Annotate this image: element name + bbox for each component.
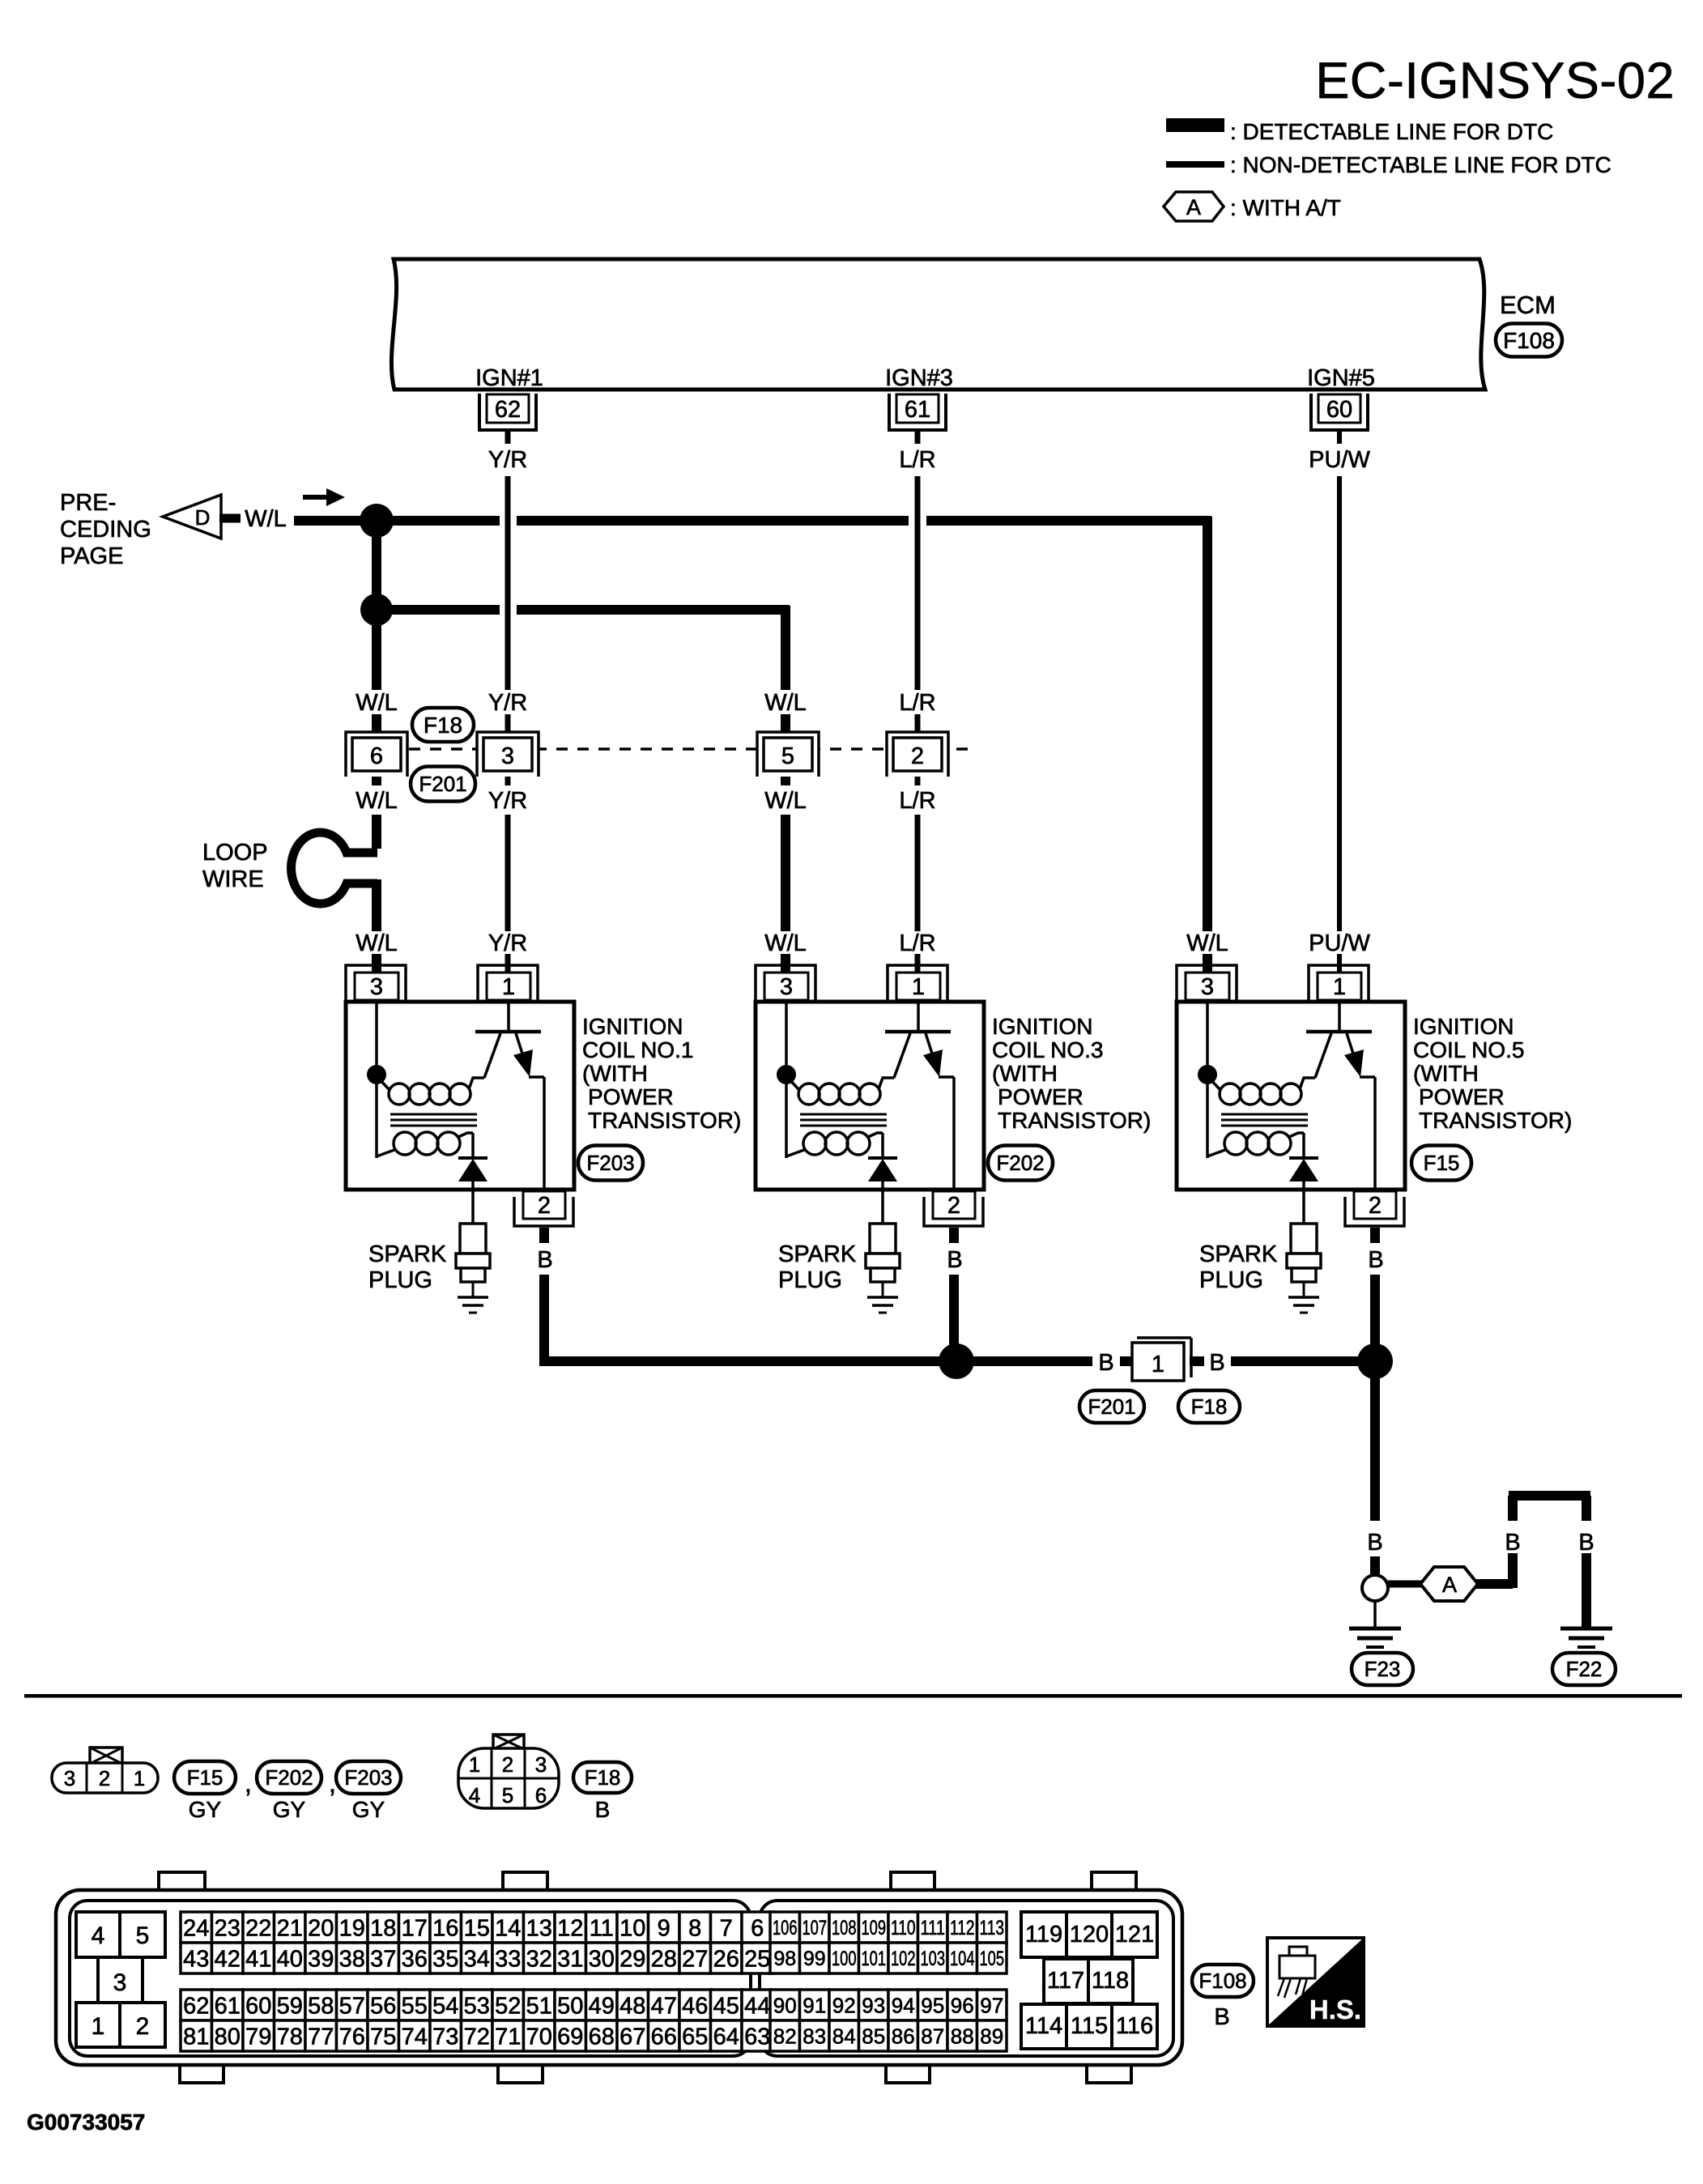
svg-text:120: 120 [1070, 1922, 1109, 1948]
connector F203 oval (coil 1) [578, 1146, 643, 1181]
svg-text:F23: F23 [1365, 1657, 1401, 1681]
svg-text:68: 68 [589, 2024, 615, 2050]
svg-text:66: 66 [651, 2024, 677, 2050]
svg-text:1: 1 [502, 974, 515, 1000]
coil 3 pin 1 bracket [888, 965, 947, 1002]
coil 3 pin 3 bracket [756, 965, 815, 1002]
coil 1 internal lead to secondary [375, 1075, 378, 1158]
svg-text:3: 3 [501, 743, 514, 769]
wire B riser segment [1508, 1553, 1518, 1588]
terminal bracket pin 61 [889, 394, 946, 430]
svg-text:1: 1 [469, 1752, 480, 1777]
in-line connector box pin 1 (B splice) [1137, 1336, 1191, 1339]
diode (coil 3) [868, 1156, 897, 1160]
svg-text:(WITH: (WITH [1413, 1061, 1479, 1086]
pin grid lower-left row 81-63 [181, 2020, 212, 2051]
svg-text:F18: F18 [1191, 1394, 1228, 1419]
wire PU/W vertical segment 2 [1337, 954, 1342, 974]
coil 1 pin 1 box [487, 973, 530, 1000]
coil 1 pin 3 bracket [346, 965, 406, 1002]
transistor 1 base bar [475, 1030, 541, 1034]
direction arrow [303, 495, 329, 500]
ECM connector bottom tab 3 [886, 2063, 930, 2083]
svg-text:45: 45 [713, 1993, 739, 2019]
svg-text:44: 44 [744, 1993, 770, 2019]
svg-text:60: 60 [245, 1993, 271, 2019]
svg-text:72: 72 [464, 2024, 490, 2050]
terminal box pin 60 [1318, 394, 1360, 423]
wire from hexagon to corner [1476, 1579, 1513, 1589]
terminal bracket pin 60 [1311, 394, 1368, 430]
svg-text:16: 16 [432, 1915, 458, 1941]
svg-text:54: 54 [432, 1993, 458, 2019]
svg-text:28: 28 [651, 1946, 677, 1972]
svg-text:19: 19 [339, 1915, 365, 1941]
svg-text:118: 118 [1092, 1968, 1129, 1994]
svg-text:89: 89 [980, 2024, 1003, 2048]
svg-text:Y/R: Y/R [488, 690, 527, 716]
diode (coil 5) [1289, 1156, 1318, 1160]
svg-text:86: 86 [892, 2024, 915, 2048]
wire Y/R vertical segment 5 [505, 954, 511, 974]
wire W/L bus upper segment c [926, 516, 1211, 526]
svg-text:F201: F201 [1088, 1394, 1135, 1419]
wire W/L into junction [294, 516, 377, 526]
F18 connector face clip [493, 1735, 524, 1749]
transistor 5 base lead [1338, 1002, 1341, 1030]
transistor 1 emitter lead to pin 2 [543, 1077, 546, 1191]
svg-text:51: 51 [526, 1993, 552, 2019]
pin box 121 [1112, 1912, 1157, 1957]
transistor 5 collector [1315, 1033, 1331, 1078]
pin box 1 [76, 2003, 120, 2047]
svg-text:24: 24 [183, 1915, 209, 1941]
pin box 119 [1021, 1912, 1067, 1957]
svg-text:L/R: L/R [899, 788, 935, 814]
svg-text:6: 6 [535, 1783, 547, 1807]
svg-text:94: 94 [892, 1993, 915, 2017]
svg-text:B: B [1505, 1530, 1520, 1556]
svg-text:96: 96 [951, 1993, 974, 2017]
svg-text:COIL NO.1: COIL NO.1 [582, 1037, 693, 1062]
junction node dot (lower W/L) [360, 594, 393, 626]
svg-text:76: 76 [339, 2024, 365, 2050]
connector F15 oval (face view) [174, 1761, 236, 1794]
connector F18 oval (mid row) [412, 708, 474, 742]
svg-text:1: 1 [1333, 974, 1346, 1000]
svg-text:B: B [595, 1797, 611, 1822]
svg-text:58: 58 [308, 1993, 334, 2019]
svg-text:64: 64 [713, 2024, 739, 2050]
svg-text:1: 1 [1152, 1352, 1164, 1377]
svg-text:F22: F22 [1566, 1657, 1603, 1681]
in-line connector box pin 5 [764, 738, 812, 771]
svg-text:3: 3 [535, 1752, 547, 1777]
wire B stub below coil 5 pin 2 [1370, 1228, 1380, 1243]
wire B from coil 1 to bus [544, 1275, 1092, 1361]
coil 3 core lines [800, 1113, 887, 1116]
wire B bus stub into connector [1120, 1356, 1134, 1366]
svg-text:IGN#1: IGN#1 [475, 365, 543, 391]
svg-text:57: 57 [339, 1993, 365, 2019]
transistor 5 emitter with arrow [1347, 1033, 1360, 1074]
junction node dot (B bus left) [939, 1343, 974, 1379]
coil 3 secondary high-tension lead [881, 1133, 884, 1160]
svg-text:WIRE: WIRE [202, 866, 264, 892]
svg-text:1: 1 [92, 2013, 105, 2040]
svg-text:108: 108 [832, 1917, 857, 1939]
svg-text:F203: F203 [344, 1765, 392, 1790]
pin 3 link lines [96, 1957, 100, 2003]
pin box 114 [1021, 2004, 1067, 2049]
svg-text:81: 81 [183, 2024, 209, 2050]
svg-text:2: 2 [99, 1766, 110, 1790]
svg-text:5: 5 [136, 1922, 150, 1949]
spark plug 1 symbol [460, 1224, 486, 1254]
svg-text:IGNITION: IGNITION [582, 1014, 683, 1039]
wire W/L left vertical (below loop) segment 2 [372, 954, 381, 974]
in-line connector bracket pin 5 [757, 732, 819, 777]
svg-text:90: 90 [773, 1993, 797, 2017]
svg-text:L/R: L/R [899, 930, 935, 956]
svg-text:GY: GY [189, 1797, 222, 1822]
pin box 115 [1067, 2004, 1112, 2049]
svg-text:1: 1 [134, 1766, 145, 1790]
svg-text:27: 27 [682, 1946, 708, 1972]
svg-text:85: 85 [862, 2024, 885, 2048]
connector F22 oval (ground) [1552, 1653, 1616, 1685]
svg-text:91: 91 [803, 1993, 826, 2017]
svg-text:30: 30 [589, 1946, 615, 1972]
connector F108 oval (ECM) [1496, 324, 1562, 357]
svg-text:3: 3 [113, 1969, 127, 1996]
diode (coil 1) [458, 1156, 487, 1160]
svg-text:49: 49 [589, 1993, 615, 2019]
svg-text:21: 21 [277, 1915, 303, 1941]
svg-text:78: 78 [277, 2024, 303, 2050]
svg-text:102: 102 [891, 1948, 916, 1970]
svg-text:F202: F202 [996, 1151, 1044, 1175]
svg-text:69: 69 [557, 2024, 583, 2050]
svg-text:115: 115 [1071, 2013, 1108, 2039]
ECM connector top tab 4 [1092, 1872, 1136, 1892]
svg-text:F18: F18 [424, 713, 462, 738]
svg-text:26: 26 [713, 1946, 739, 1972]
svg-text:3: 3 [64, 1766, 75, 1790]
wire W/L middle vertical segment 5 [781, 954, 790, 974]
wire W/L left vertical segment 4 [372, 815, 381, 849]
svg-text:38: 38 [339, 1946, 365, 1972]
svg-text:COIL NO.3: COIL NO.3 [992, 1037, 1103, 1062]
svg-text:42: 42 [215, 1946, 241, 1972]
wire W/L left vertical segment 3 [372, 769, 381, 785]
coil 5 primary winding [1220, 1083, 1241, 1105]
svg-text:99: 99 [803, 1948, 826, 1970]
svg-text:82: 82 [773, 2024, 797, 2048]
pin box 4 [76, 1912, 120, 1957]
svg-text:36: 36 [402, 1946, 428, 1972]
svg-text:GY: GY [273, 1797, 306, 1822]
connector F18 oval (face view) [573, 1762, 632, 1793]
svg-text:39: 39 [308, 1946, 334, 1972]
legend non-detectable line sample bar [1166, 161, 1224, 168]
connector F201 oval (B splice) [1079, 1390, 1144, 1423]
splice circle node [1362, 1575, 1388, 1601]
spark plug 5 symbol [1291, 1224, 1317, 1254]
svg-text:40: 40 [277, 1946, 303, 1972]
wire W/L bus lower segment a [377, 605, 500, 615]
svg-text:: NON-DETECTABLE LINE FOR DTC: : NON-DETECTABLE LINE FOR DTC [1230, 152, 1611, 177]
H.S. harness symbol [1267, 1938, 1364, 2026]
svg-text:65: 65 [682, 2024, 708, 2050]
spark plug lead 3 [881, 1181, 884, 1224]
svg-text:A: A [1186, 195, 1201, 219]
svg-text:CEDING: CEDING [60, 517, 151, 543]
svg-text:8: 8 [688, 1915, 701, 1941]
ground symbol F22 [1560, 1627, 1612, 1631]
wire L/R vertical segment 5 [915, 954, 921, 974]
svg-text:29: 29 [619, 1946, 645, 1972]
coil 5 secondary high-tension lead [1302, 1133, 1305, 1160]
transistor 3 base lead [917, 1002, 920, 1030]
svg-text:79: 79 [245, 2024, 271, 2050]
transistor 3 collector [894, 1033, 910, 1078]
coil 1 pin 2 bracket [514, 1197, 573, 1226]
wire B down segment upper [1582, 1496, 1591, 1521]
coil 1 pin 2 box [523, 1191, 565, 1219]
svg-text:,: , [245, 1769, 252, 1798]
coil 5 pin 3 box [1186, 973, 1229, 1000]
coil 5 pin 3 bracket [1177, 965, 1237, 1002]
connector F108 oval (connector view) [1192, 1965, 1254, 1997]
ECM connector top tab 2 [503, 1872, 547, 1892]
svg-text:61: 61 [215, 1993, 241, 2019]
ground symbol F23 [1349, 1627, 1401, 1631]
wire W/L middle vertical segment 1 [781, 606, 790, 690]
svg-text:TRANSISTOR): TRANSISTOR) [998, 1108, 1151, 1133]
coil 1 secondary winding [394, 1132, 416, 1155]
wire stub from triangle [219, 514, 241, 523]
wire B top bridge [1509, 1491, 1590, 1501]
coil 3 internal lead to secondary [785, 1075, 788, 1158]
svg-text:14: 14 [495, 1915, 521, 1941]
svg-text:80: 80 [215, 2024, 241, 2050]
pin grid upper-right row 106-113 [770, 1912, 800, 1943]
ignition coil no.1 box [346, 1002, 574, 1190]
svg-text:GY: GY [352, 1797, 385, 1822]
svg-text:6: 6 [370, 743, 383, 769]
ECM connector bottom tab 4 [1087, 2063, 1131, 2083]
coil 1 pin 1 bracket [478, 965, 538, 1002]
svg-text:98: 98 [773, 1948, 796, 1970]
svg-text:32: 32 [526, 1946, 552, 1972]
wire B down to ground F22 [1582, 1553, 1591, 1627]
wire B to splice circle [1370, 1556, 1380, 1575]
svg-text:113: 113 [980, 1917, 1005, 1939]
coil 3 pin 1 box [896, 973, 940, 1000]
svg-text:95: 95 [921, 1993, 944, 2017]
svg-text:23: 23 [215, 1915, 241, 1941]
svg-text:117: 117 [1047, 1968, 1084, 1994]
svg-text:112: 112 [950, 1917, 975, 1939]
page reference triangle D [163, 495, 221, 539]
svg-text:SPARK: SPARK [1199, 1241, 1278, 1267]
in-line connector bracket pin 2 [887, 732, 948, 777]
pin box 117 [1044, 1959, 1088, 2003]
svg-text:(WITH: (WITH [582, 1061, 648, 1086]
svg-text:F108: F108 [1198, 1969, 1246, 1993]
svg-text:73: 73 [432, 2024, 458, 2050]
svg-text:SPARK: SPARK [778, 1241, 857, 1267]
wire B bus stub out of connector [1190, 1356, 1204, 1366]
svg-text:61: 61 [905, 397, 930, 423]
svg-text:(WITH: (WITH [992, 1061, 1058, 1086]
svg-text:84: 84 [832, 2024, 856, 2048]
ECM connector bottom tab 2 [498, 2063, 543, 2083]
svg-text:3: 3 [1201, 974, 1214, 1000]
svg-text:POWER: POWER [998, 1084, 1084, 1109]
in-line connector box pin 3 [483, 738, 532, 771]
svg-text:47: 47 [651, 1993, 677, 2019]
svg-text:2: 2 [947, 1193, 960, 1219]
svg-text:COIL NO.5: COIL NO.5 [1413, 1037, 1524, 1062]
svg-text:B: B [1209, 1350, 1224, 1376]
wire W/L bus upper segment a [377, 516, 500, 526]
svg-text:W/L: W/L [764, 690, 807, 716]
pin box 120 [1067, 1912, 1112, 1957]
svg-text:50: 50 [557, 1993, 583, 2019]
svg-text:12: 12 [557, 1915, 583, 1941]
coil 3 internal junction dot [777, 1065, 796, 1084]
svg-text:Y/R: Y/R [488, 930, 527, 956]
pin grid upper-left row 43-25 [181, 1943, 212, 1973]
svg-text:63: 63 [744, 2024, 770, 2050]
coil connector face view (3 2 1) [52, 1763, 158, 1793]
coil 3 secondary winding [803, 1132, 826, 1155]
svg-text:20: 20 [308, 1915, 334, 1941]
svg-text:106: 106 [773, 1917, 798, 1939]
transistor 1 collector [484, 1033, 500, 1078]
coil 3 pin 3 internal lead [785, 1002, 788, 1075]
svg-text:F15: F15 [187, 1765, 224, 1790]
pin grid lower-right row 82-89 [770, 2020, 800, 2051]
svg-text:PLUG: PLUG [778, 1267, 842, 1293]
wire Y/R vertical segment 2 [505, 714, 511, 739]
svg-text:62: 62 [495, 397, 521, 423]
svg-text:88: 88 [951, 2024, 974, 2048]
wire W/L bus upper segment b [517, 516, 909, 526]
terminal box pin 61 [896, 394, 939, 423]
wire W/L middle vertical segment 4 [781, 815, 790, 931]
ground lead F23 [1373, 1601, 1377, 1627]
transistor 1 emitter with arrow [516, 1033, 529, 1074]
svg-text:75: 75 [370, 2024, 396, 2050]
svg-text:PLUG: PLUG [1199, 1267, 1263, 1293]
coil connector face clip [90, 1748, 122, 1764]
spark plug lead 1 [471, 1181, 475, 1224]
connector F201 oval (mid row) [411, 767, 475, 802]
svg-text:F18: F18 [585, 1765, 621, 1790]
coil 1 pin 3 internal lead [375, 1002, 378, 1075]
wire L/R vertical segment 2 [915, 714, 921, 739]
svg-text:121: 121 [1115, 1922, 1154, 1948]
pin grid lower-right row 90-97 [770, 1990, 800, 2020]
svg-text:F203: F203 [586, 1151, 634, 1175]
svg-text:70: 70 [526, 2024, 552, 2050]
wire W/L middle vertical segment 3 [781, 769, 790, 785]
svg-text:105: 105 [980, 1948, 1005, 1970]
wire L/R vertical segment 3 [915, 769, 921, 785]
coil 1 pin 3 box [355, 973, 398, 1000]
svg-text:W/L: W/L [356, 788, 398, 814]
svg-text:2: 2 [502, 1752, 513, 1777]
svg-text:5: 5 [781, 743, 794, 769]
svg-text:25: 25 [744, 1946, 770, 1972]
svg-text:114: 114 [1025, 2013, 1062, 2039]
svg-text:PRE-: PRE- [60, 490, 116, 516]
svg-text:17: 17 [402, 1915, 428, 1941]
svg-text:ECM: ECM [1500, 291, 1556, 319]
svg-text:11: 11 [590, 1915, 614, 1941]
ECM connector right cavity [760, 1901, 1173, 2056]
svg-text:W/L: W/L [1186, 930, 1228, 956]
svg-text:Y/R: Y/R [488, 788, 527, 814]
svg-text:104: 104 [950, 1948, 975, 1970]
ECM connector outer shell [56, 1890, 1182, 2065]
coil 3 pin 2 bracket [924, 1197, 983, 1226]
coil 5 pin 2 box [1354, 1191, 1396, 1219]
terminal bracket pin 62 [479, 394, 536, 430]
coil 1 secondary high-tension lead [471, 1133, 475, 1160]
pin grid upper-left row 24-6 [181, 1912, 212, 1943]
ECM connector top tab 1 [159, 1872, 205, 1892]
pin grid lower-left row 62-44 [181, 1990, 212, 2020]
wire L/R vertical segment 4 [915, 815, 921, 931]
spark plug 3 symbol [870, 1224, 896, 1254]
svg-text:W/L: W/L [245, 506, 287, 532]
wire B from coil 5 down [1370, 1275, 1380, 1361]
wire L/R vertical segment 1 [915, 476, 921, 690]
svg-text:EC-IGNSYS-02: EC-IGNSYS-02 [1315, 53, 1675, 109]
transistor 1 base lead [507, 1002, 510, 1030]
transistor 3 base bar [885, 1030, 951, 1034]
terminal box pin 62 [487, 394, 529, 423]
svg-text:53: 53 [464, 1993, 490, 2019]
svg-text:100: 100 [832, 1948, 857, 1970]
wire W/L right vertical segment 2 [1203, 954, 1212, 974]
svg-text:F108: F108 [1503, 328, 1555, 353]
wire W/L bus lower segment b [517, 605, 790, 615]
svg-text:116: 116 [1116, 2013, 1153, 2039]
svg-text:101: 101 [862, 1948, 887, 1970]
svg-text:B: B [537, 1247, 552, 1273]
F18 connector face view (1-6) [458, 1748, 559, 1808]
svg-text:2: 2 [538, 1193, 551, 1219]
svg-text:4: 4 [92, 1922, 105, 1949]
transistor 3 emitter lead to pin 2 [952, 1077, 956, 1191]
svg-text:35: 35 [432, 1946, 458, 1972]
junction node dot (upper W/L) [360, 504, 394, 538]
svg-text:9: 9 [658, 1915, 671, 1941]
wire stub below pin 62 [505, 432, 511, 444]
loop wire [292, 832, 377, 904]
svg-text:2: 2 [1369, 1193, 1382, 1219]
connector F202 oval (face view) [257, 1761, 321, 1794]
coil 5 internal lead to secondary [1206, 1075, 1209, 1158]
coil 3 primary winding [798, 1083, 820, 1105]
svg-text:L/R: L/R [899, 690, 935, 716]
svg-text:109: 109 [862, 1917, 887, 1939]
